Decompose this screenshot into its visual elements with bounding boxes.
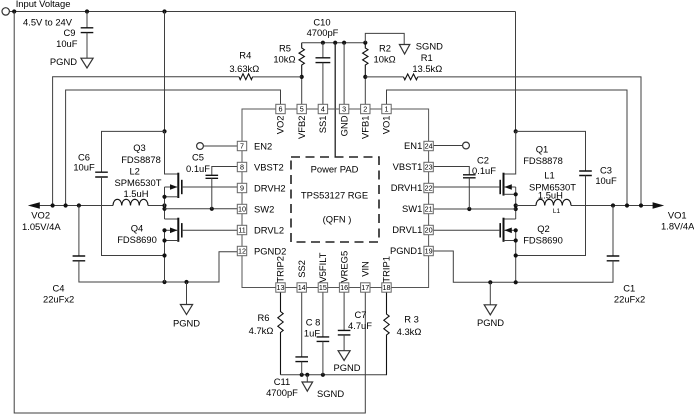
svg-text:24: 24 [425, 142, 433, 151]
svg-text:C4: C4 [53, 283, 65, 294]
svg-text:11: 11 [238, 226, 245, 235]
node right PGND rail / PGND symbol [488, 280, 492, 284]
pin boxes bottom (13-18) [276, 283, 391, 292]
svg-text:C9: C9 [64, 27, 76, 38]
wire C6 top branch [102, 131, 165, 172]
svg-text:C11: C11 [274, 376, 291, 387]
node Q4 source / C6 tie [162, 253, 166, 257]
wire pin 1 VO1 loop [387, 90, 628, 206]
node Q3 drain / C6 junction [162, 129, 166, 133]
node input rail / Q3 drain drop junction [162, 9, 166, 13]
arrow Q4 body (points right) [170, 228, 178, 234]
wire GND riser to pin 3 [343, 43, 345, 105]
svg-text:C5: C5 [192, 151, 204, 162]
svg-text:VO1: VO1 [668, 209, 687, 220]
wire SW1 line from pin 21 [434, 208, 516, 210]
svg-text:1.8V/4A: 1.8V/4A [661, 221, 694, 232]
transistor Q3 channel bar [177, 173, 179, 198]
node Q2 body tie [514, 228, 518, 232]
svg-text:4700pF: 4700pF [266, 387, 298, 398]
svg-text:SW1: SW1 [402, 203, 422, 214]
node VO1 line / R1 loop [639, 203, 643, 207]
transistor Q1 body stub [504, 186, 516, 188]
svg-text:1.5uH: 1.5uH [538, 190, 563, 201]
svg-text:13: 13 [277, 283, 285, 292]
svg-text:4: 4 [321, 105, 325, 114]
pin boxes right (24-19) [424, 141, 433, 255]
arrow Q3 body (points right) [170, 184, 178, 190]
node L2 / SW vertical [162, 203, 166, 207]
wire C4 stem [78, 206, 80, 257]
svg-text:PGND: PGND [333, 362, 360, 373]
svg-text:10kΩ: 10kΩ [374, 53, 396, 64]
svg-text:FDS8878: FDS8878 [523, 155, 563, 166]
transistor Q4 drain lead [165, 218, 179, 220]
svg-text:DRVL1: DRVL1 [392, 224, 422, 235]
wire PGND stub (left) [186, 282, 188, 305]
svg-text:10kΩ: 10kΩ [273, 53, 295, 64]
svg-text:20: 20 [425, 226, 433, 235]
wire EN2 to pin 7 [203, 145, 237, 147]
svg-text:Q2: Q2 [537, 223, 550, 234]
node input rail / C9 junction [85, 9, 89, 13]
svg-text:GND: GND [338, 115, 349, 136]
capacitor C3 [579, 171, 592, 176]
svg-text:4700pF: 4700pF [307, 27, 339, 38]
node SGND rail / C8 [321, 373, 325, 377]
wire pin 6 VO2 loop [66, 90, 281, 206]
transistor Q1 source stub [504, 193, 516, 195]
node SW2 / C5 bottom [210, 207, 214, 211]
svg-text:VREG5: VREG5 [338, 251, 349, 283]
svg-text:22uFx2: 22uFx2 [614, 294, 645, 305]
wire left VIN rail down and bottom run to pin17 [14, 12, 365, 414]
wire Q1 gate lead from pin 22 DRVH1 [434, 186, 501, 188]
node VO1 line / C1 [611, 203, 615, 207]
capacitor C6 [95, 172, 108, 177]
node Q1 source [514, 192, 518, 196]
svg-text:L2: L2 [129, 165, 139, 176]
wire Q3 gate lead from pin 9 DRVH2 [182, 186, 238, 188]
wire bottom SGND rail [281, 374, 388, 376]
wire C2 bottom to SW1 [468, 178, 470, 209]
node VO1 line / pin1 loop [625, 203, 629, 207]
node SW1 / C2 bottom [467, 207, 471, 211]
svg-text:4.7kΩ: 4.7kΩ [249, 325, 274, 336]
wire C5 from pin 8 VBST2 [212, 167, 238, 176]
svg-text:SW2: SW2 [254, 203, 274, 214]
arrow VO2 output (points left) [28, 202, 40, 208]
node Q4 source tie [162, 238, 166, 242]
wire Q4 body-source down to PGND rail [164, 230, 166, 282]
wire C1 bottom / right PGND rail / pin 19 [434, 251, 613, 282]
wire C7 bottom to PGND [343, 335, 345, 351]
wire SGND rail top [302, 42, 366, 44]
svg-text:V5FILT: V5FILT [317, 252, 328, 282]
svg-text:C 8: C 8 [306, 317, 321, 328]
svg-text:PGND1: PGND1 [390, 245, 422, 256]
svg-text:R1: R1 [421, 52, 433, 63]
svg-text:12: 12 [238, 247, 246, 256]
svg-text:R 3: R 3 [404, 314, 419, 325]
node SW1 line junction [514, 207, 518, 211]
wire C10 stem top [322, 43, 324, 58]
svg-text:3: 3 [342, 105, 346, 114]
svg-text:9: 9 [240, 184, 244, 193]
svg-text:14: 14 [298, 283, 306, 292]
svg-text:2: 2 [363, 105, 367, 114]
svg-text:1.05V/4A: 1.05V/4A [22, 221, 61, 232]
node input rail / left rail junction [12, 9, 16, 13]
svg-text:18: 18 [383, 283, 391, 292]
wire Q4 gate lead from pin 11 DRVL2 [182, 229, 238, 231]
svg-text:PGND2: PGND2 [254, 245, 286, 256]
node right PGND rail / Q2 source [514, 280, 518, 284]
svg-text:21: 21 [425, 205, 433, 214]
svg-text:(QFN ): (QFN ) [323, 214, 352, 225]
node SGND rail / C10 [321, 41, 325, 45]
svg-text:Power PAD: Power PAD [311, 164, 359, 175]
node SGND rail / SGND symbol [305, 373, 309, 377]
wire C10 to pin 4 SS1 [322, 63, 324, 105]
svg-text:SPM6530T: SPM6530T [115, 177, 162, 188]
node SGND rail / pad riser [333, 41, 337, 45]
capacitor C11 [295, 357, 308, 362]
svg-text:TPS53127 RGE: TPS53127 RGE [301, 190, 368, 201]
ground PGND (C9) [81, 58, 93, 68]
svg-text:16: 16 [340, 283, 348, 292]
svg-text:SGND: SGND [317, 388, 344, 399]
transistor Q4 gate bar [181, 223, 183, 237]
arrow Q2 body (points left) [504, 228, 512, 234]
svg-text:VFB1: VFB1 [360, 116, 371, 139]
wire C7 stem from pin 16 [343, 292, 345, 330]
resistor R3 [384, 292, 389, 375]
wire C3 bottom to PGND tie [516, 176, 586, 256]
transistor Q1 channel bar [503, 173, 505, 196]
svg-text:DRVL2: DRVL2 [254, 224, 284, 235]
transistor Q2 gate bar [499, 223, 501, 237]
inductor L1 [536, 199, 571, 205]
svg-text:1.5uH: 1.5uH [123, 188, 148, 199]
svg-text:C10: C10 [313, 16, 330, 27]
node Q4 body tie [162, 228, 166, 232]
svg-text:VIN: VIN [360, 261, 371, 277]
svg-text:Q3: Q3 [133, 142, 146, 153]
transistor Q4 channel bar [177, 218, 179, 242]
svg-text:0.1uF: 0.1uF [472, 165, 496, 176]
capacitor C2 [463, 175, 476, 178]
node SGND rail / C11 [300, 373, 304, 377]
svg-text:13.5kΩ: 13.5kΩ [412, 63, 442, 74]
transistor Q4 source stub [165, 240, 179, 242]
pin numbers right [425, 142, 433, 256]
svg-text:8: 8 [240, 163, 244, 172]
wire C4 bottom / left PGND rail [79, 252, 237, 282]
power pad dashed box [291, 157, 379, 242]
node SGND rail / GND pin riser [342, 41, 346, 45]
capacitor C4 [73, 256, 86, 261]
input terminal circle [2, 8, 9, 15]
node SW2 line junction [162, 207, 166, 211]
wire Q1 body-source down to SW node [515, 187, 517, 219]
svg-text:SS2: SS2 [296, 260, 307, 278]
svg-text:FDS8690: FDS8690 [523, 234, 563, 245]
svg-text:10uF: 10uF [56, 38, 78, 49]
pin numbers bottom [277, 283, 391, 292]
capacitor C7 [338, 330, 351, 335]
svg-text:VFB2: VFB2 [296, 116, 307, 139]
transistor Q4 body stub [165, 229, 179, 231]
wire C1 stem [612, 206, 614, 257]
wire SW2 line to pin 10 [165, 208, 238, 210]
arrow VO1 output (points right) [653, 202, 665, 208]
transistor Q3 gate bar [181, 180, 183, 194]
svg-text:C7: C7 [355, 309, 367, 320]
transistor Q2 body stub [504, 229, 516, 231]
svg-text:1uF: 1uF [304, 328, 320, 339]
wire C8 bottom to rail [322, 341, 324, 374]
svg-text:C1: C1 [623, 282, 635, 293]
svg-text:Input Voltage: Input Voltage [16, 0, 71, 9]
svg-text:L1: L1 [553, 208, 561, 215]
svg-text:15: 15 [319, 283, 327, 292]
capacitor C5 [206, 175, 219, 178]
wire C3 top branch [516, 131, 586, 171]
wire PGND stub (right) [489, 282, 491, 305]
wire SGND stub (bottom) [306, 375, 308, 382]
svg-text:SS1: SS1 [317, 116, 328, 134]
pin numbers left [238, 142, 246, 256]
transistor Q2 source stub [504, 240, 516, 242]
svg-text:VBST1: VBST1 [393, 161, 423, 172]
node Q3 source [162, 195, 166, 199]
svg-text:22: 22 [425, 184, 433, 193]
svg-text:R5: R5 [279, 42, 291, 53]
resistor R5 [299, 43, 304, 77]
pin boxes left (7-12) [237, 141, 246, 255]
svg-text:4.5V to 24V: 4.5V to 24V [23, 16, 73, 27]
svg-text:L1: L1 [544, 170, 554, 181]
ground PGND (right) [484, 305, 496, 315]
wire VFB1 node to pin 2 [364, 77, 366, 104]
resistor R6 [278, 292, 283, 375]
wire R1 right run from VFB1 [365, 77, 641, 206]
svg-text:TRIP2: TRIP2 [275, 256, 286, 283]
node VO2 line / C4 [77, 203, 81, 207]
svg-text:EN2: EN2 [254, 140, 272, 151]
node L1 / SW vertical [514, 203, 518, 207]
wire pad riser to power pad [334, 43, 336, 157]
wire C2 from pin 23 VBST1 [434, 167, 470, 175]
svg-text:FDS8690: FDS8690 [117, 234, 157, 245]
wire C8 stem from pin 15 [322, 292, 324, 337]
svg-text:5: 5 [300, 105, 304, 114]
wire C5 bottom to SW2 [211, 178, 213, 209]
wire Q3 body-source down to SW node [164, 187, 166, 219]
svg-text:Q1: Q1 [536, 144, 549, 155]
transistor Q2 drain lead [504, 218, 516, 220]
transistor Q3 body stub [165, 186, 179, 188]
svg-text:3.63kΩ: 3.63kΩ [229, 63, 259, 74]
svg-text:0.1uF: 0.1uF [186, 163, 210, 174]
capacitor C10 [316, 58, 331, 63]
pin numbers top [279, 105, 389, 114]
wire C11 bottom to rail [301, 362, 303, 375]
ground PGND (C7) [338, 351, 350, 361]
svg-text:10uF: 10uF [595, 175, 617, 186]
node VO2 line / R4 loop [51, 203, 55, 207]
wire Q2 gate lead from pin 20 DRVL1 [434, 229, 501, 231]
inductor L2 [113, 199, 148, 205]
node VO2 line / pin6 loop [64, 203, 68, 207]
transistor Q1 gate bar [499, 180, 501, 194]
node VFB1 [363, 75, 367, 79]
transistor Q2 channel bar [503, 218, 505, 242]
svg-text:4.7uF: 4.7uF [348, 320, 372, 331]
svg-text:PGND: PGND [477, 317, 504, 328]
svg-text:19: 19 [425, 247, 433, 256]
svg-text:22uFx2: 22uFx2 [43, 294, 74, 305]
wire input rail drop to Q1 drain node [515, 12, 517, 132]
wire VO2 output line [39, 205, 165, 207]
svg-text:R6: R6 [258, 312, 270, 323]
wire C9 stem top [86, 12, 88, 28]
transistor Q3 source stub [165, 196, 179, 198]
wire top input rail [9, 11, 515, 13]
wire VO1 output line [516, 205, 654, 207]
pin boxes top (6,5,4,3,2,1) [276, 104, 391, 113]
node left PGND rail / PGND symbol [184, 280, 188, 284]
svg-text:6: 6 [279, 105, 283, 114]
node Q2 source / C3 tie [514, 253, 518, 257]
wire Q2 body-source down to PGND rail [515, 230, 517, 282]
terminal EN2 circle [197, 143, 204, 150]
terminal EN1 circle [463, 142, 470, 149]
svg-text:DRVH1: DRVH1 [391, 182, 423, 193]
node Q2 source tie [514, 238, 518, 242]
svg-text:VO1: VO1 [381, 116, 392, 135]
ground SGND (bottom) [302, 382, 313, 391]
svg-text:10uF: 10uF [73, 162, 95, 173]
svg-text:VO2: VO2 [275, 116, 286, 135]
arrow Q1 body (points left) [504, 184, 512, 190]
node SGND rail / R2 top [363, 41, 367, 45]
svg-text:C3: C3 [600, 165, 612, 176]
wire SGND symbol feed [365, 33, 404, 44]
svg-text:10: 10 [238, 205, 246, 214]
svg-text:4.3kΩ: 4.3kΩ [397, 326, 422, 337]
svg-text:C2: C2 [477, 155, 489, 166]
transistor Q3 drain lead [165, 131, 179, 174]
capacitor C8 [317, 337, 330, 342]
svg-text:PGND: PGND [50, 56, 77, 67]
ground PGND (left) [180, 305, 192, 315]
svg-text:EN1: EN1 [404, 140, 422, 151]
resistor R2 [363, 43, 368, 77]
wire R4 left loop to VO2 [53, 77, 302, 206]
svg-text:7: 7 [240, 142, 244, 151]
op-amp U1 TPS53127 IC body outline [242, 109, 429, 288]
wire C11 stem from pin 14 [301, 292, 303, 357]
node Q1 drain / C3 junction [514, 129, 518, 133]
svg-text:SGND: SGND [416, 40, 443, 51]
svg-text:R2: R2 [379, 42, 391, 53]
svg-text:FDS8878: FDS8878 [121, 154, 161, 165]
svg-text:TRIP1: TRIP1 [381, 256, 392, 283]
svg-text:Q4: Q4 [131, 222, 144, 233]
resistor R4 [239, 74, 253, 80]
wire C6 bottom to PGND tie [102, 177, 165, 256]
node left PGND rail / Q4 source [162, 280, 166, 284]
capacitor C1 [607, 256, 620, 261]
ground SGND (top) [399, 45, 409, 55]
wire input drop to Q3 drain node [164, 12, 166, 132]
svg-text:R4: R4 [239, 50, 251, 61]
svg-text:17: 17 [361, 283, 369, 292]
resistor R1 [404, 74, 418, 80]
svg-text:VO2: VO2 [31, 209, 50, 220]
wire pin 24 to EN1 [434, 145, 463, 147]
svg-text:VBST2: VBST2 [254, 161, 284, 172]
transistor Q1 drain lead [504, 131, 516, 174]
node VFB2 [300, 75, 304, 79]
svg-text:DRVH2: DRVH2 [254, 182, 286, 193]
wire C9 stem bottom [86, 33, 88, 58]
svg-text:23: 23 [425, 163, 433, 172]
capacitor C9 [81, 28, 94, 33]
svg-text:1: 1 [385, 105, 389, 114]
svg-text:PGND: PGND [173, 318, 200, 329]
wire VFB2 node to pin 5 [301, 77, 303, 104]
